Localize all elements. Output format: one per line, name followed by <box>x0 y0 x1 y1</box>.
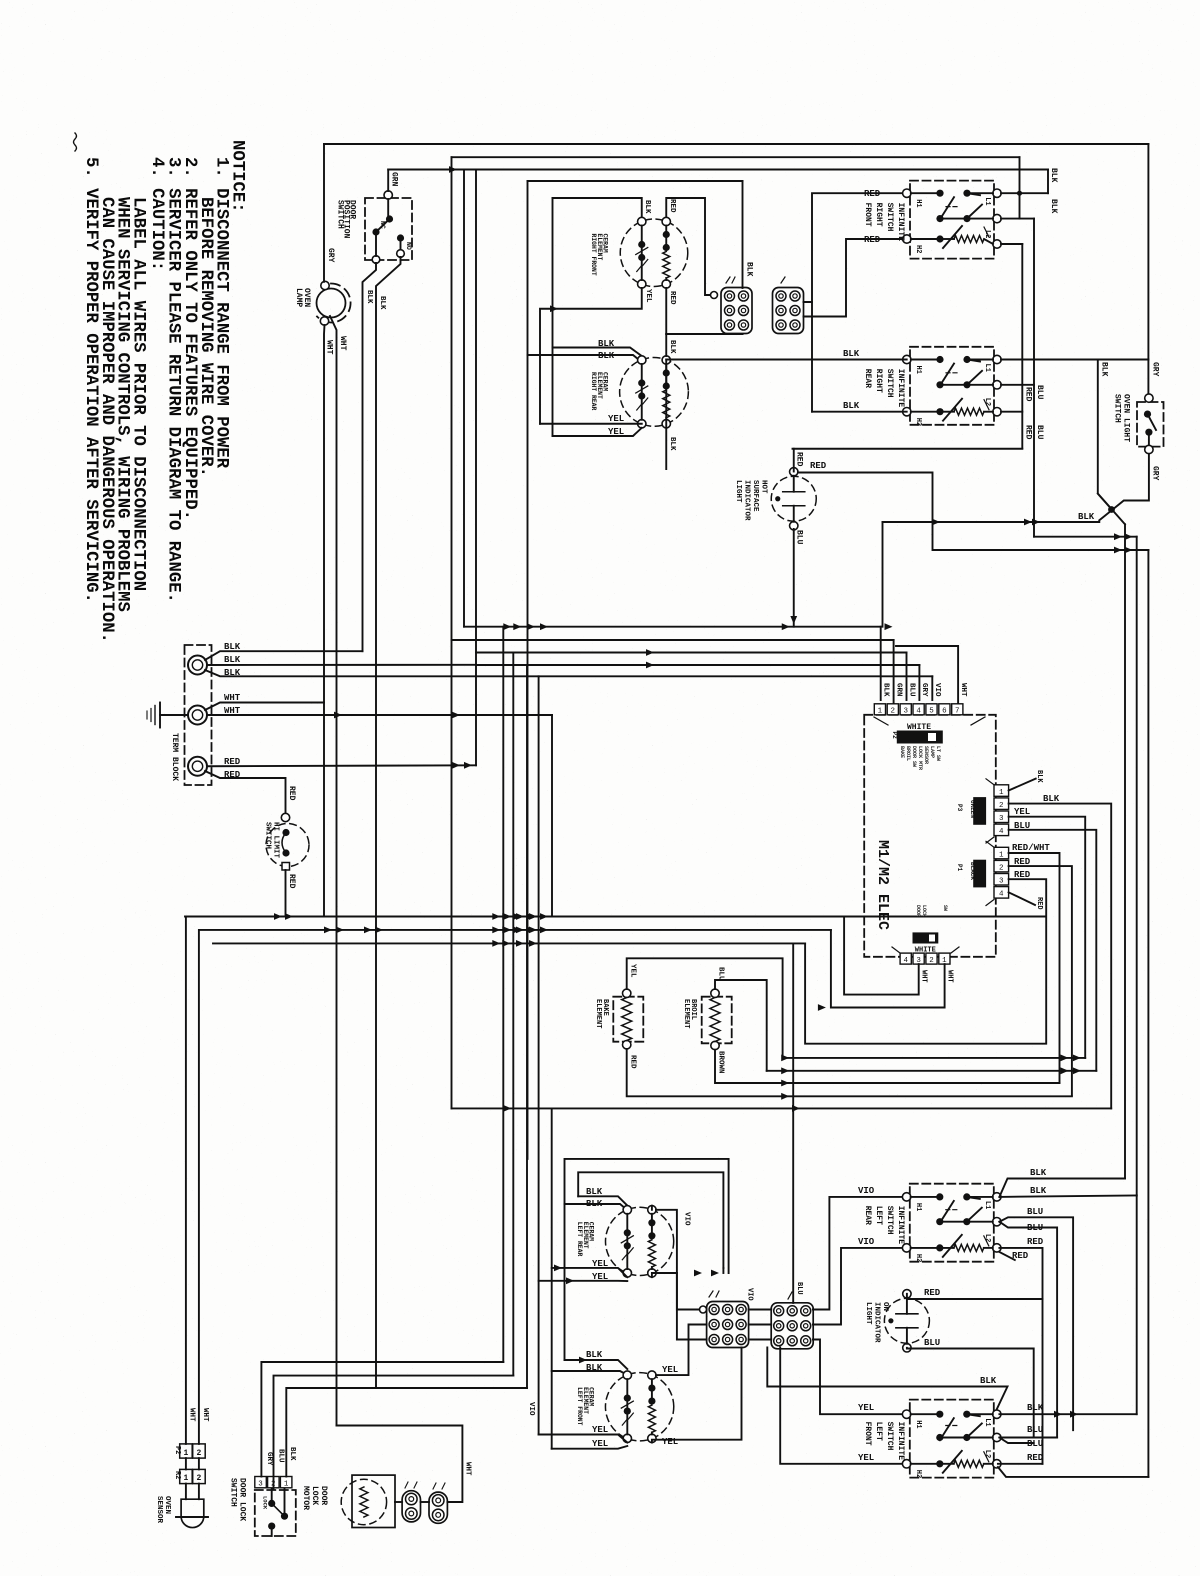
M1/M2 tiny text above bottom strip <box>915 905 948 917</box>
wire bake bottom (RED) <box>627 1049 1072 1096</box>
wire YEL left front bottom right <box>652 1348 742 1443</box>
wire P3 pin1 diagonal (BLK) <box>1009 779 1036 791</box>
hot surface indicator light <box>771 476 816 521</box>
wire bus WHT A y=916.5 <box>185 916 1046 918</box>
wire top line 3 (GRN from door switch) <box>388 169 1048 171</box>
wire bake top (YEL) <box>627 958 783 1058</box>
oven light switch <box>1137 402 1164 447</box>
wire L1 right rear to oven light switch (BLK) <box>1001 359 1148 361</box>
wire outer-left verticals to left front element <box>564 1204 566 1360</box>
wire sensor to R2 <box>185 1484 187 1500</box>
wire x=1136.7 down <box>1136 537 1138 1196</box>
wire inner box right outlets <box>711 1270 719 1277</box>
ground symbol <box>160 714 188 716</box>
wire left rear L2 RED <box>999 1248 1042 1464</box>
wire on indicator BLU <box>907 1348 1034 1438</box>
wire left front mid BLU <box>999 1437 1057 1439</box>
wire P1 pin3 (RED) <box>805 879 1046 1043</box>
wire bus3/4 jog arrows <box>646 649 654 656</box>
wire conn B right pins to switches <box>813 1197 907 1310</box>
ceram element right front <box>620 219 688 287</box>
infinite switch left rear <box>910 1184 994 1262</box>
wire x=793.2 WHT long vertical to connector <box>792 943 794 1302</box>
wire hi limit down to bus (RED) <box>285 870 287 917</box>
wire RED 2 from term block <box>205 771 286 813</box>
wire bus2 y=640 to M1/M2 <box>452 639 894 641</box>
wire WHT 1 from term block <box>205 703 324 711</box>
scan noise overlay <box>0 0 1 1</box>
wire y=1044 connector <box>818 1004 826 1011</box>
M1/M2 7-pin strip <box>874 704 963 716</box>
wire lamp WHT 2 <box>330 316 337 1426</box>
wire door lock BLU feed <box>274 1376 514 1489</box>
wire vertical x=451.5 (long left BLK loop) <box>451 157 453 1108</box>
wire L1 right front to bus <box>1001 192 1048 194</box>
wire YEL left front top right <box>656 1325 707 1376</box>
wire BLK pair left rear <box>578 1196 627 1205</box>
wire BLK 2 from term block <box>207 664 476 666</box>
wire left front L1 BLK right <box>999 1413 1136 1415</box>
wire pin2 riser <box>893 640 895 704</box>
wire BLU y=536.7 to right <box>1034 536 1137 538</box>
wire blk pair to rear element <box>553 348 642 357</box>
wire left rear right bottom (YEL) <box>652 1273 677 1277</box>
wire BLK into H1 right rear <box>666 359 906 361</box>
wire VIO 2 <box>813 1248 907 1325</box>
wire x=882.5 down to bus1 <box>882 522 884 627</box>
wire BLK pair left front <box>565 1360 628 1369</box>
oven sensor <box>181 1499 204 1527</box>
wire YEL to left front switch H2 <box>780 1348 907 1464</box>
wire M1/M2 bottom pin3 (WHT) <box>844 917 919 995</box>
connector 9-pin B <box>771 1303 813 1349</box>
wire pin7 riser <box>896 646 958 704</box>
wire x=552 WHT down <box>551 715 553 917</box>
wire RED vertical x=1022.3 <box>1021 244 1023 449</box>
ceram element left front <box>605 1373 673 1441</box>
wire branch BLK down at 1097.8 <box>1098 360 1111 509</box>
wire RED 1 from term block <box>207 764 476 767</box>
wire bus line2 y=1070.8 <box>767 1070 1097 1072</box>
infinite switch right rear <box>910 347 994 425</box>
hi limit switch <box>266 824 309 867</box>
wire right rear mid (BLU) <box>1001 384 1034 386</box>
wire RED top right front <box>666 198 716 295</box>
junction arrows on buses <box>492 913 500 920</box>
door position switch <box>365 198 412 260</box>
wire WHT to oval connector <box>337 1426 463 1503</box>
on indicator light <box>884 1298 929 1343</box>
wire blk rear top right <box>665 334 667 356</box>
wire indicator top to line (RED) <box>793 449 795 472</box>
wire left rear L2 RED diag <box>999 1252 1014 1260</box>
wire left rear L1 to 1134.4 (BLK) <box>999 1195 1136 1197</box>
infinite switch left front <box>910 1400 994 1478</box>
wire broil top (BLU) <box>715 980 767 1071</box>
wire VIO left rear top right <box>651 1206 653 1210</box>
wire M1/M2 bottom pin1 (WHT) <box>831 930 945 1008</box>
wire WHT 2 from term block <box>207 714 552 716</box>
wire broil bottom (RED/WHT) <box>715 1050 1060 1083</box>
connector R2 <box>180 1469 193 1483</box>
wire connector B to infinite switch right front (RED) <box>804 193 907 302</box>
wire P1 pin4 diagonal (RED) <box>1009 892 1035 905</box>
wire vertical x=464 (to M1/M2 bus 1) <box>463 170 465 627</box>
wire P3 pin4 (BLU) <box>1009 830 1097 1071</box>
wire right rear L2 (RED) <box>1001 411 1022 413</box>
wire left front mid BLU 2 <box>999 1438 1033 1444</box>
wire BLK from conn area to left front L1 <box>767 1348 1007 1415</box>
wire BLK connector drop <box>742 181 744 288</box>
page tick mark <box>74 133 77 151</box>
wire YEL pair left rear bottom <box>552 1268 628 1277</box>
wire lamp top (GRY) <box>323 144 325 282</box>
connector P2 <box>180 1444 193 1458</box>
wire connector B top entry WHT <box>792 1302 794 1304</box>
ceram element right rear <box>620 358 689 427</box>
wire lamp WHT 1 <box>323 325 326 703</box>
wire bus C y=943.4 <box>213 942 805 944</box>
wire enclosure left elements outer <box>565 1159 729 1273</box>
M1/M2 P1 connector strip (BLACK) <box>994 847 1009 898</box>
ceram element left rear <box>606 1207 674 1275</box>
connector oval A <box>402 1491 420 1522</box>
wire left rear L1 BLK up <box>999 1179 1125 1197</box>
wire vertical bundle x=503-540 down <box>502 627 504 1362</box>
wire left rear mid BLU 2 <box>999 1222 1057 1438</box>
wire connector B lower (RED) <box>804 239 907 317</box>
wire P3 pin2 (BLK) long loop <box>1009 804 1112 1109</box>
door lock motor <box>352 1475 395 1527</box>
wire rear element right wire bottom (BLK) <box>665 360 667 471</box>
M1/M2 P3 connector strip (GREEN) <box>994 785 1009 836</box>
wire oven light switch bottom to X junction (GRY) <box>1099 454 1149 521</box>
wire x=324 lamp WHT down to bus <box>323 703 325 917</box>
wire indicator bottom (BLU) to bus1 <box>793 529 795 627</box>
wire YEL pair left front bottom <box>539 1435 628 1443</box>
wire x=1136.7 lower segment <box>1136 1195 1138 1414</box>
wire on indicator RED <box>907 1294 1043 1299</box>
wire yel pair rear bottom <box>553 428 642 436</box>
wire indicator RED right <box>798 473 1149 551</box>
wire enclosure left elements inner <box>578 1172 723 1268</box>
wire x=1148.4 down (RED long) <box>1147 550 1149 1477</box>
wire x=1125 down (BLK) <box>1124 524 1126 1178</box>
wire BLK 1 from term block <box>205 651 363 660</box>
connector 6-pin A <box>721 288 752 334</box>
wire connector A right-bottom to rear element <box>666 333 742 335</box>
wire yel right front down-left <box>540 288 642 424</box>
connector 9-pin A <box>707 1302 749 1348</box>
wire bus WHT B y=930 <box>200 929 831 931</box>
wire connector A-B link rows <box>749 1309 772 1311</box>
M1/M2 ELEC control box <box>864 715 996 957</box>
wire right vertical to oven light switch (GRY) <box>1147 144 1149 394</box>
bus junction arrows bottom <box>503 1105 511 1112</box>
wire bus5 y=676.3 <box>476 675 932 677</box>
M1/M2 main connector blob <box>897 731 942 743</box>
wire enclosure right elements outer <box>528 180 743 182</box>
wire P1 pin2 (RED) <box>1009 866 1072 1095</box>
wire bus line5 y=1108.4 long BLK <box>452 1107 1112 1109</box>
wire P1 pin1 (RED/WHT) <box>1009 853 1060 1083</box>
notice text block <box>81 140 247 643</box>
X junction diagonal BLK <box>1098 494 1125 525</box>
wire right front mid terminal (BLU) <box>1001 218 1034 220</box>
wire bus left verticals to P2/R2 <box>185 917 187 1444</box>
wire red right front bottom <box>666 288 742 334</box>
broil element <box>702 997 732 1044</box>
wire top line 2 (BLK inner) <box>452 156 1020 158</box>
wire bus3 y=652.5 <box>476 652 907 654</box>
infinite switch right front <box>910 181 994 259</box>
bake element <box>613 997 643 1042</box>
bus junction arrows <box>503 623 511 630</box>
wire vertical x=476 (to RED term-block bus) <box>475 170 477 766</box>
wire top line 1 (BLK outer) <box>324 143 1148 145</box>
wire RED y=522 to X junction <box>883 521 1100 523</box>
wire BLU vertical x=1034 <box>1033 219 1035 537</box>
wire motor to connectors <box>395 1501 402 1503</box>
wire door switch to term block (BLK) <box>363 263 377 651</box>
wire door switch NO down (BLK) <box>376 257 401 1388</box>
wire P3 pin3 (YEL) <box>1009 817 1086 1058</box>
wire bus1 y=626.7 to M1/M2 <box>464 626 881 628</box>
wire left front L2 to x=1148.4 <box>998 1467 1149 1477</box>
wire P2-R2 links <box>185 1458 187 1469</box>
wire BLK into H2 right rear <box>812 411 907 413</box>
wire BLK 3 from term block <box>205 670 476 676</box>
M1/M2 tiny pin text columns <box>899 746 941 770</box>
connector 6-pin B <box>773 288 804 334</box>
connector oval B <box>429 1492 447 1523</box>
wire bus4 y=665 <box>476 664 919 666</box>
oven lamp <box>317 289 346 318</box>
wire door lock GRY feed <box>261 1362 503 1477</box>
wire right front L2 (RED) <box>1001 243 1022 245</box>
term block <box>185 645 212 785</box>
wire x=1019.5 from top line 2 <box>1019 157 1021 218</box>
door lock switch <box>255 1477 292 1489</box>
M1/M2 bottom 4-pin strip <box>900 953 950 965</box>
wire YEL to left front switch H1 <box>813 1340 907 1415</box>
wire inner box ceram right front <box>553 198 642 218</box>
wire left front L2 RED <box>998 1463 1043 1465</box>
wire left rear mid BLU 1 <box>999 1217 1073 1430</box>
wire bus line1 y=1057.9 <box>783 1057 1086 1059</box>
wire BLK vertical x=1048 <box>1047 170 1049 194</box>
wire door lock BLK feed <box>286 1388 527 1477</box>
